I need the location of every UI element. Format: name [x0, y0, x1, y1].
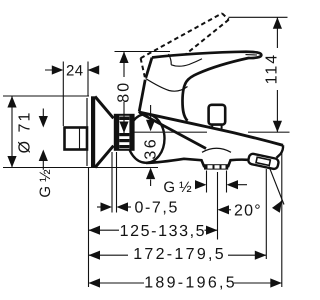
dim 172-179,5 [89, 169, 267, 259]
dim 20 degrees [269, 167, 284, 205]
lever tip slot [246, 54, 258, 56]
body left edge [139, 80, 145, 112]
svg-text:189-196,5: 189-196,5 [144, 275, 237, 292]
axis centerline left [134, 131, 207, 133]
svg-text:G ½: G ½ [163, 179, 192, 196]
faucet silhouette white fill [139, 51, 283, 166]
center ext line aerator [217, 172, 219, 240]
dim 114 [229, 17, 288, 132]
dim G1/2 bottom [207, 171, 248, 193]
knob stem [211, 125, 213, 129]
axis centerline right [248, 131, 290, 133]
dim 24 [45, 62, 99, 127]
svg-text:G ½: G ½ [37, 169, 54, 198]
dim diameter 71 [3, 96, 158, 168]
spout right end edge [277, 145, 284, 158]
svg-text:24: 24 [66, 63, 84, 80]
spout top edge [140, 112, 283, 145]
svg-text:36: 36 [143, 137, 160, 160]
spout front edge [139, 112, 206, 149]
dashed lever raised [141, 13, 229, 77]
spout bottom edge [146, 159, 248, 166]
spout end circle [128, 114, 165, 163]
hose connector [248, 153, 280, 170]
svg-text:114: 114 [264, 53, 281, 85]
dim 80 [115, 52, 171, 134]
lever crease curves [169, 54, 172, 65]
dim 189-196,5 [89, 151, 282, 287]
lever rear edge [146, 58, 152, 78]
lever joint line [146, 79, 188, 92]
aerator band [204, 164, 228, 169]
svg-text:125-133,5: 125-133,5 [120, 223, 206, 240]
dim G1/2 left [42, 109, 44, 170]
svg-text:172-179,5: 172-179,5 [133, 246, 226, 263]
dim 36 [150, 105, 152, 186]
dim 0-7,5 [97, 152, 131, 213]
lever top edge and underside [152, 52, 261, 121]
svg-text:0-7,5: 0-7,5 [135, 199, 179, 216]
wall nipple G1/2 [65, 128, 88, 150]
escutcheon [87, 96, 114, 168]
svg-text:Ø 71: Ø 71 [17, 111, 34, 154]
dim 125-133,5 [89, 229, 218, 231]
union nut [115, 115, 134, 150]
spout bulge arc [202, 148, 231, 152]
diverter knob [209, 105, 226, 125]
svg-text:20°: 20° [234, 203, 262, 220]
svg-text:80: 80 [116, 81, 133, 103]
